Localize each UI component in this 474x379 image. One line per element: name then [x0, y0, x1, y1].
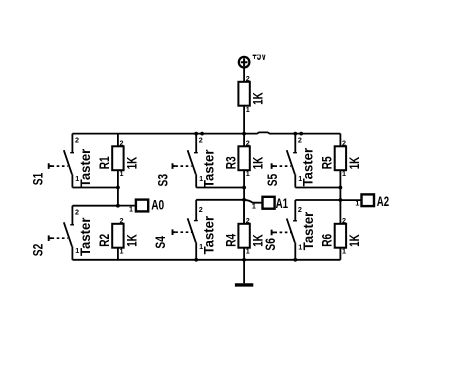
- port A2: [362, 194, 375, 206]
- svg-text:1: 1: [355, 199, 359, 208]
- value 1K (R5): [347, 157, 362, 170]
- switch S5 (Taster): [272, 134, 297, 188]
- svg-text:1K: 1K: [124, 157, 139, 170]
- node R1 bottom: [116, 186, 120, 190]
- value 1K (R4): [251, 234, 266, 247]
- label A2: [377, 193, 389, 209]
- wire resistor to top bus: [243, 106, 245, 134]
- resistor R4: [238, 200, 249, 260]
- wire to A2 port: [340, 199, 361, 201]
- wire S6 top rail: [295, 199, 340, 201]
- svg-text:2: 2: [120, 138, 124, 147]
- label Taster (S6): [301, 211, 316, 250]
- label R6: [320, 233, 335, 246]
- label S5: [265, 173, 280, 186]
- svg-text:S2: S2: [31, 244, 46, 257]
- label R3: [223, 156, 238, 169]
- value 1K (R1): [124, 157, 139, 170]
- resistor R6: [335, 224, 346, 260]
- node A2: [339, 198, 343, 202]
- node R3 bottom: [242, 186, 246, 190]
- wire to A1 port: [244, 200, 262, 203]
- svg-text:2: 2: [199, 205, 203, 214]
- svg-text:S3: S3: [156, 174, 171, 187]
- svg-text:1: 1: [246, 169, 250, 178]
- switch S6 (Taster): [272, 200, 297, 260]
- svg-text:R4: R4: [223, 233, 238, 246]
- label A0: [151, 197, 164, 213]
- port A0: [136, 200, 148, 212]
- wire S3 bottom rail: [196, 187, 244, 189]
- svg-text:2: 2: [75, 208, 79, 217]
- svg-text:1K: 1K: [347, 157, 362, 170]
- svg-text:2: 2: [120, 216, 124, 225]
- net label +5V (clipped): [252, 48, 266, 63]
- svg-text:1: 1: [252, 202, 256, 211]
- svg-text:2: 2: [342, 138, 346, 147]
- value 1K (R6): [347, 234, 362, 247]
- svg-text:Taster: Taster: [202, 149, 217, 188]
- svg-text:R3: R3: [223, 156, 238, 169]
- svg-text:S1: S1: [31, 172, 46, 185]
- svg-text:2: 2: [246, 74, 250, 83]
- svg-text:1: 1: [120, 169, 124, 178]
- svg-text:S5: S5: [265, 173, 280, 186]
- value 1K (R3): [251, 157, 266, 170]
- wire top bus with hop: [72, 132, 340, 133]
- switch S1 (Taster): [49, 134, 74, 188]
- svg-text:Taster: Taster: [78, 217, 93, 256]
- node A0: [116, 204, 120, 208]
- wire S5 bottom rail: [295, 187, 340, 189]
- node S6 bottom: [293, 258, 297, 262]
- node R5 bottom: [339, 186, 343, 190]
- svg-text:2: 2: [199, 136, 203, 145]
- svg-text:1K: 1K: [124, 234, 139, 247]
- wire to A0 port: [118, 205, 136, 207]
- svg-text:Taster: Taster: [78, 148, 93, 187]
- wire supply to resistor: [243, 68, 245, 82]
- value 1K: [251, 92, 266, 105]
- label S4: [153, 236, 168, 249]
- resistor R5: [335, 134, 346, 224]
- switch S3 (Taster): [173, 134, 198, 188]
- resistor R3: [238, 134, 249, 224]
- label R5: [320, 156, 335, 169]
- node bus tie 1: [200, 132, 204, 136]
- label Taster (S2): [78, 217, 93, 256]
- svg-text:1: 1: [246, 247, 250, 256]
- port A1: [263, 197, 275, 209]
- label S1: [31, 172, 46, 185]
- value 1K (R2): [124, 234, 139, 247]
- switch S2 (Taster): [49, 206, 74, 260]
- wire bottom rail: [72, 259, 340, 261]
- node S4 bottom: [194, 258, 198, 262]
- label S3: [156, 174, 171, 187]
- svg-text:1K: 1K: [251, 157, 266, 170]
- node S5 top: [293, 132, 297, 136]
- svg-text:R2: R2: [97, 234, 112, 247]
- node A1: [242, 198, 246, 202]
- svg-text:A2: A2: [377, 193, 389, 209]
- label Taster (S5): [301, 147, 316, 186]
- supply +5V symbol: [239, 57, 250, 68]
- svg-text:Taster: Taster: [202, 215, 217, 254]
- label Taster (S3): [202, 149, 217, 188]
- svg-text:Taster: Taster: [301, 147, 316, 186]
- resistor 1K (top pull-up): [238, 82, 249, 106]
- svg-text:R6: R6: [320, 233, 335, 246]
- label Taster (S1): [78, 148, 93, 187]
- label R4: [223, 233, 238, 246]
- label S2: [31, 244, 46, 257]
- svg-text:2: 2: [75, 136, 79, 145]
- label R1: [97, 156, 112, 169]
- node ground/R4: [242, 258, 246, 262]
- svg-text:1: 1: [120, 247, 124, 256]
- svg-text:2: 2: [246, 138, 250, 147]
- svg-text:1K: 1K: [347, 234, 362, 247]
- svg-text:1K: 1K: [251, 92, 266, 105]
- wire S4 top rail: [196, 199, 244, 201]
- svg-text:2: 2: [298, 136, 302, 145]
- wire S2 top rail / A0 rail: [72, 205, 118, 207]
- svg-text:S6: S6: [263, 238, 278, 251]
- wire S1 bottom rail: [72, 187, 118, 189]
- svg-text:1: 1: [342, 169, 346, 178]
- svg-text:R5: R5: [320, 156, 335, 169]
- svg-text:2: 2: [246, 216, 250, 225]
- svg-text:1: 1: [129, 204, 133, 213]
- label Taster (S4): [202, 215, 217, 254]
- label A1: [276, 195, 289, 211]
- node bus tie 2: [299, 132, 303, 136]
- svg-text:2: 2: [342, 216, 346, 225]
- svg-text:A1: A1: [276, 195, 289, 211]
- label S6: [263, 238, 278, 251]
- svg-text:1: 1: [246, 105, 250, 114]
- ground: [235, 260, 253, 285]
- label R2: [97, 234, 112, 247]
- svg-text:Taster: Taster: [301, 211, 316, 250]
- svg-text:A0: A0: [151, 197, 164, 213]
- node S3 top: [194, 132, 198, 136]
- switch S4 (Taster): [173, 200, 198, 260]
- node supply/R3: [242, 132, 246, 136]
- svg-text:1: 1: [342, 247, 346, 256]
- svg-text:R1: R1: [97, 156, 112, 169]
- svg-text:S4: S4: [153, 236, 168, 249]
- resistor R1: [112, 134, 123, 206]
- resistor R2: [112, 224, 123, 260]
